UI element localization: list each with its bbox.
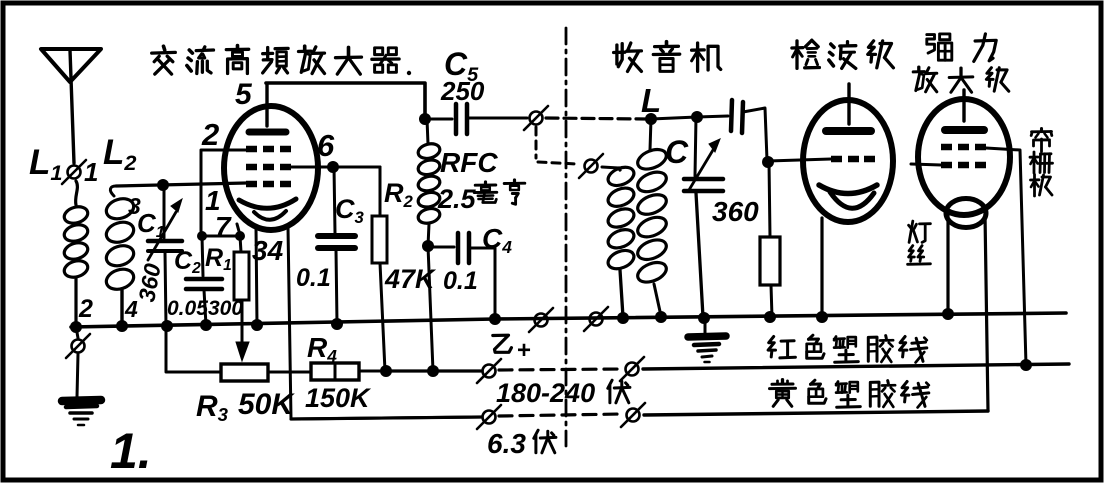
svg-text:0.1: 0.1 <box>296 264 331 292</box>
svg-text:360: 360 <box>712 196 759 227</box>
wire detector cathode to bus <box>820 218 823 316</box>
value 0.1 (C3) <box>296 264 331 292</box>
wire pin 6 to C3/R2 <box>291 166 380 169</box>
svg-text:300: 300 <box>208 297 243 320</box>
svg-text:7: 7 <box>215 211 232 242</box>
label 帘栅极 <box>1030 129 1053 197</box>
svg-text:50K: 50K <box>238 388 295 421</box>
bus node det cathode <box>816 311 828 323</box>
svg-text:L1: L1 <box>29 143 62 185</box>
label 灯丝 <box>908 221 931 264</box>
svg-text:C2: C2 <box>174 247 201 277</box>
RF choke RFC 2.5mH <box>417 119 442 246</box>
wire plug to primary coil <box>602 167 619 168</box>
svg-text:R3: R3 <box>196 390 229 425</box>
svg-text:C1: C1 <box>137 208 165 241</box>
wire L to C/grid-cap <box>651 117 697 119</box>
cathode junction wire <box>201 235 240 238</box>
label R4 <box>307 332 337 366</box>
ground symbol (radio chassis) <box>688 318 726 362</box>
label pins 34 <box>252 235 284 266</box>
inductor L2 <box>104 186 137 325</box>
tube U1 (HF amplifier) <box>224 84 318 230</box>
bus node C4 <box>489 313 501 325</box>
wire pin 7 lead <box>237 224 240 235</box>
radio secondary coil L <box>635 119 669 316</box>
radio antenna primary coil <box>605 164 636 317</box>
dashed branch to radio primary <box>536 127 577 164</box>
label pin 7 <box>215 211 232 242</box>
svg-text:C3: C3 <box>335 194 365 227</box>
label C2 <box>174 247 201 277</box>
yellow wire (6.3V) <box>644 411 988 415</box>
connector plug bus left of divider <box>529 308 553 332</box>
wire heater pin 4 to 6.3V line <box>288 227 482 419</box>
connector plug radio antenna <box>579 154 603 178</box>
title 强力 <box>927 34 996 62</box>
tube U2 (detector) <box>803 84 893 222</box>
node pin7/R1 <box>235 231 245 241</box>
connector plug B+ right <box>620 357 644 381</box>
connector plug B+ left <box>477 359 501 383</box>
figure number 1. <box>110 423 152 479</box>
wire heater pin 3 to bus <box>256 227 257 325</box>
label C1 <box>137 208 165 241</box>
red wire (B+) <box>643 364 1069 369</box>
svg-text:R2: R2 <box>384 178 414 211</box>
tube U3 (power amplifier) <box>918 90 1010 228</box>
label RFC <box>440 147 498 178</box>
svg-text:150K: 150K <box>305 383 372 413</box>
potentiometer R3 (50K) <box>166 328 311 381</box>
value 250 <box>440 76 485 106</box>
dashed wire C5 out to radio L <box>546 118 646 119</box>
wire L2/C1 to grid pin 1 <box>116 183 246 186</box>
bus node L1 <box>70 321 82 333</box>
dashed 6.3V link <box>499 414 622 416</box>
label L1 <box>29 143 62 185</box>
wire pin 2 to cathode junction <box>201 150 246 236</box>
connector plug (C5 output) <box>524 106 548 130</box>
label 红色塑胶线 <box>768 335 927 362</box>
svg-text:180-240: 180-240 <box>496 378 595 408</box>
svg-text:C4: C4 <box>482 223 512 257</box>
label 3 <box>128 193 141 219</box>
svg-text:+: + <box>517 337 531 364</box>
node varC top <box>691 111 703 123</box>
wire power cathode to bus <box>946 214 949 314</box>
svg-text:1: 1 <box>84 157 98 187</box>
bus node gridleak <box>764 311 776 323</box>
svg-text:2.5: 2.5 <box>437 184 477 214</box>
6.3V filament line <box>291 417 482 419</box>
label C3 <box>335 194 365 227</box>
value 360 (C1) <box>133 261 165 304</box>
node RFC bottom / C4 <box>422 240 434 252</box>
connector plug bus right of divider <box>584 307 608 331</box>
label L (radio) <box>641 82 661 119</box>
divider dash-dot line <box>565 28 568 446</box>
svg-text:2: 2 <box>78 295 93 323</box>
svg-text:5: 5 <box>235 78 253 111</box>
svg-text:R4: R4 <box>307 332 337 366</box>
node screen on red line <box>1020 359 1032 371</box>
svg-text:R1: R1 <box>205 244 232 274</box>
wire screen grid to red line <box>986 148 1026 365</box>
label R2 <box>384 178 414 211</box>
connector plug 2 (ground jack) <box>66 327 90 358</box>
label 2 (terminal) <box>78 295 93 323</box>
resistor R2 (47K) <box>372 167 387 371</box>
bus node C1 <box>161 320 173 332</box>
label 乙+ <box>493 335 531 364</box>
ground symbol (left) <box>62 354 101 425</box>
svg-text:360: 360 <box>133 261 165 304</box>
svg-text:1.: 1. <box>110 423 152 479</box>
bus node varC <box>698 312 710 324</box>
label L2 <box>103 133 136 175</box>
bus node sec <box>655 311 667 323</box>
wire grid node to tube <box>768 159 831 161</box>
bus node pw cathode <box>942 308 954 320</box>
svg-text:0.1: 0.1 <box>443 267 478 295</box>
value 0.05 <box>167 297 208 320</box>
wire power grid stub <box>911 164 941 165</box>
label R3 50K <box>196 388 295 425</box>
label 6.3伏 <box>487 428 556 459</box>
label pin 2 <box>201 117 219 152</box>
svg-text:250: 250 <box>440 76 485 106</box>
resistor R4 (150K) <box>311 363 386 380</box>
label C5 <box>444 46 479 86</box>
wire antenna to L1 <box>76 181 78 205</box>
node pin 6 <box>327 161 339 173</box>
label 180-240伏 <box>496 378 630 408</box>
node pin2/C2 <box>197 231 207 241</box>
connector plug 6.3V right <box>621 403 645 427</box>
wire top plate (pin5) to C5/RFC node <box>266 83 425 117</box>
value 47K <box>384 264 437 294</box>
node L <box>645 113 657 125</box>
title 收音机 <box>614 42 721 72</box>
label pin 6 <box>317 128 335 163</box>
label R1 <box>205 244 232 274</box>
arrow to R3 wiper <box>236 342 249 361</box>
node RFC on B+ <box>427 365 439 377</box>
grid coupling capacitor <box>697 100 767 160</box>
svg-text:RFC: RFC <box>440 147 498 178</box>
B+ line (乙+) <box>386 369 481 372</box>
svg-text:6: 6 <box>317 128 335 163</box>
antenna <box>41 49 101 163</box>
capacitor C2 (0.05) <box>186 236 222 325</box>
wire RFC bottom to B+ line <box>428 246 433 371</box>
node C5/RFC top <box>419 113 431 125</box>
label C4 <box>482 223 512 257</box>
capacitor C5 (250) <box>425 104 527 134</box>
svg-text:C: C <box>665 134 689 170</box>
svg-text:6.3: 6.3 <box>487 428 526 459</box>
value 150K <box>305 383 372 413</box>
resistor R1 (300) <box>234 236 249 344</box>
node detector grid <box>762 156 774 168</box>
value 300 <box>208 297 243 320</box>
node L2/C1 junction <box>157 179 169 191</box>
label C (radio) <box>665 134 689 170</box>
connector plug 1 (antenna jack) <box>62 160 86 184</box>
title 放大级 <box>913 67 1009 92</box>
grid leak resistor <box>760 162 780 317</box>
capacitor C4 (0.1) <box>428 233 495 318</box>
bus node L2 <box>116 320 128 332</box>
bus node pri <box>617 312 629 324</box>
capacitor C3 (0.1) <box>318 167 355 323</box>
ground bus <box>71 313 1066 327</box>
inductor L1 <box>62 204 89 325</box>
value 360 (radio) <box>712 196 759 227</box>
capacitor C1 (variable, 360) <box>148 185 182 325</box>
svg-text:0.05: 0.05 <box>167 297 208 320</box>
label 1 (plug) <box>84 157 98 187</box>
node R2 on B+ <box>380 365 392 377</box>
bus node pin3 <box>251 319 263 331</box>
value 0.1 (C4) <box>443 267 478 295</box>
title 交流髙频放大器 <box>152 46 399 75</box>
title 检波级 <box>792 40 894 68</box>
variable capacitor C (360) <box>684 117 723 317</box>
label 4 <box>124 296 138 322</box>
dashed B+ link <box>499 369 622 370</box>
svg-text:2: 2 <box>201 117 219 152</box>
bus node C2 <box>200 319 212 331</box>
label 黄色塑胶线 <box>770 380 929 408</box>
value 2.5 毫亨 <box>437 180 525 214</box>
svg-text:L2: L2 <box>103 133 136 175</box>
label pin 5 <box>235 78 253 111</box>
wire power heater to yellow line <box>985 214 988 411</box>
connector plug 6.3V left <box>477 405 501 429</box>
label pin 1 <box>205 185 221 216</box>
bus node C3 <box>331 318 343 330</box>
